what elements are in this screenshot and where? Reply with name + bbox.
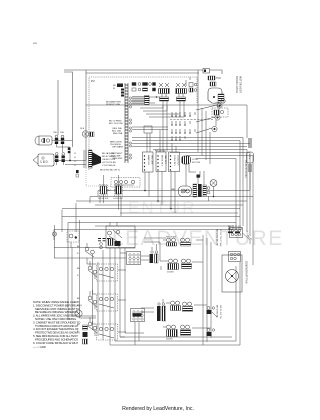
resistor block R1 bbox=[145, 96, 161, 105]
svg-text:15A: 15A bbox=[60, 131, 64, 134]
right connector capsule P5 bbox=[247, 139, 254, 190]
interlock dashed box bbox=[67, 231, 79, 242]
svg-text:GY-7G TN-8H: GY-7G TN-8H bbox=[102, 162, 116, 164]
light switch dashed box bbox=[111, 178, 140, 188]
text block TB3 bbox=[111, 153, 123, 160]
svg-text:DOWNDRAFT FAN: DOWNDRAFT FAN bbox=[245, 261, 249, 284]
svg-text:BK W RD BU OR YL: BK W RD BU OR YL bbox=[100, 170, 121, 172]
harness connector CN1 bbox=[84, 150, 101, 168]
svg-text:BK W RD BU: BK W RD BU bbox=[216, 305, 218, 318]
svg-text:LEADVENTURE: LEADVENTURE bbox=[112, 227, 284, 250]
bottom bus lines bbox=[54, 250, 240, 345]
infinite switch S3 bbox=[88, 261, 97, 279]
switch dashed box C bbox=[97, 324, 118, 340]
svg-text:W: W bbox=[113, 88, 116, 90]
svg-text:DOOR LATCH: DOOR LATCH bbox=[235, 76, 239, 93]
svg-text:VT-9J WH-0K: VT-9J WH-0K bbox=[102, 165, 116, 167]
mid bus left bends bbox=[54, 191, 98, 241]
svg-text:RED 20A: RED 20A bbox=[113, 132, 123, 135]
switch column verticals bbox=[93, 250, 104, 340]
terminal grid G1 bbox=[127, 252, 141, 265]
switch S2 aux contacts bbox=[98, 239, 110, 249]
infinite switch S5 bbox=[88, 317, 97, 336]
wire left fuse drop bbox=[57, 80, 59, 135]
right rotated labels lower bbox=[216, 305, 222, 319]
transformer T2 bbox=[176, 83, 187, 101]
registration tick top-left bbox=[33, 43, 37, 44]
connector strip P1 bbox=[125, 83, 132, 163]
stacked parts left bbox=[83, 325, 88, 344]
svg-text:RF 1200W: RF 1200W bbox=[166, 237, 176, 239]
svg-text:P2: P2 bbox=[91, 79, 95, 83]
downdraft fan box bbox=[222, 255, 242, 292]
contact grid dots bbox=[171, 115, 190, 140]
oven probe PR1 bbox=[75, 310, 82, 317]
svg-text:OR YL GY TN: OR YL GY TN bbox=[219, 305, 221, 319]
svg-text:BAKE RLY: BAKE RLY bbox=[147, 155, 150, 166]
svg-text:— ◦◦◦ GND: — ◦◦◦ GND bbox=[33, 345, 46, 349]
svg-text:L1: L1 bbox=[74, 153, 77, 155]
fuse F1 bbox=[55, 135, 58, 147]
dual element block E2 bbox=[157, 303, 166, 321]
rotary switch S1 bbox=[196, 103, 222, 133]
burner LR cluster bbox=[167, 259, 179, 274]
mid bus lines bbox=[54, 191, 253, 230]
svg-text:BK-1A W-2B: BK-1A W-2B bbox=[102, 152, 115, 155]
svg-text:BK: BK bbox=[113, 85, 116, 87]
small box on wire row bbox=[144, 126, 152, 133]
plug J1 upper bbox=[35, 136, 52, 145]
svg-text:1800W: 1800W bbox=[166, 339, 173, 341]
wire rows from strip P1 right bbox=[132, 97, 250, 147]
text block TB2 bbox=[110, 142, 124, 149]
burner LF cluster bbox=[166, 237, 177, 247]
latch motor M1 bbox=[208, 88, 225, 103]
svg-text:1 8 0: 1 8 0 bbox=[40, 160, 48, 164]
svg-text:DOOR SW: DOOR SW bbox=[98, 198, 108, 200]
door switch SW1 bbox=[98, 175, 108, 200]
wire labels cluster above bus bbox=[100, 190, 118, 192]
element bar EB1 bbox=[193, 184, 197, 197]
svg-text:CONV: CONV bbox=[192, 159, 199, 161]
thermostat box TH1 bbox=[106, 222, 135, 258]
svg-text:BK-12 W-14: BK-12 W-14 bbox=[228, 227, 241, 229]
oven lamp LP1 bbox=[210, 180, 217, 187]
right label dark blobs bbox=[228, 232, 240, 234]
notes text block bbox=[33, 300, 82, 349]
svg-text:FAN RLY: FAN RLY bbox=[164, 155, 167, 164]
svg-text:LOCK RLY: LOCK RLY bbox=[177, 155, 179, 166]
wire motor feed bbox=[197, 70, 199, 105]
svg-text:BK MAIN PWR: BK MAIN PWR bbox=[106, 101, 121, 104]
latch switch box bbox=[212, 108, 228, 117]
svg-text:W NEUT LINE: W NEUT LINE bbox=[106, 104, 121, 106]
relay box K3 bbox=[169, 152, 180, 172]
aux switch contacts SW0 bbox=[76, 170, 79, 177]
relay box K1 bbox=[143, 152, 154, 172]
right wire labels block bbox=[228, 227, 243, 232]
svg-text:2500W: 2500W bbox=[167, 272, 174, 274]
fuse F4 bbox=[62, 153, 65, 166]
element bar EB2 bbox=[198, 184, 202, 197]
wire diag stub bbox=[243, 233, 253, 244]
bus bundle right top bbox=[132, 138, 253, 266]
pilot lamp left bbox=[52, 225, 56, 258]
svg-text:CONV RLY: CONV RLY bbox=[173, 155, 175, 167]
downdraft connector P7 bbox=[229, 252, 241, 262]
wires mid verticals bbox=[147, 77, 219, 164]
svg-text:L2: L2 bbox=[74, 161, 77, 163]
switch left tick labels bbox=[77, 246, 80, 333]
svg-text:BU LOCK SW: BU LOCK SW bbox=[109, 123, 124, 125]
svg-text:YL GY TN VT WH: YL GY TN VT WH bbox=[219, 229, 221, 247]
limit switch cluster upper bbox=[207, 307, 218, 318]
circuit breaker CB1 bbox=[203, 69, 222, 75]
fuse rating labels bbox=[53, 131, 64, 134]
switch dashed box A bbox=[97, 264, 118, 281]
wire sw drops bbox=[100, 194, 121, 216]
downdraft connector P6 bbox=[230, 228, 243, 238]
svg-text:RD-3C BU-4D: RD-3C BU-4D bbox=[102, 156, 116, 158]
svg-text:P5 BK W RD BU: P5 BK W RD BU bbox=[244, 160, 247, 178]
burner cluster M2 bbox=[183, 302, 193, 312]
svg-text:BK W RD BU OR: BK W RD BU OR bbox=[216, 229, 218, 246]
infinite switch S2 bbox=[85, 243, 94, 258]
wire plug1 to bus bbox=[52, 141, 86, 165]
wire bus under motor bbox=[86, 105, 247, 138]
lock switch SW2 bbox=[113, 175, 123, 200]
svg-text:RD L2 FEED: RD L2 FEED bbox=[109, 121, 122, 123]
infinite switch S4 bbox=[88, 291, 97, 309]
burner RF cluster bbox=[181, 238, 191, 246]
svg-text:TCO: TCO bbox=[216, 77, 221, 80]
console box left edge bbox=[85, 70, 87, 160]
board input blob bbox=[117, 84, 123, 88]
lower wiring verticals bbox=[68, 235, 211, 345]
svg-text:DBL LINE: DBL LINE bbox=[151, 155, 153, 165]
board aux strip marks bbox=[121, 89, 124, 97]
fuse F2 bbox=[61, 135, 64, 147]
svg-text:RD-16 BU-18: RD-16 BU-18 bbox=[228, 229, 243, 231]
board small parts row bbox=[132, 83, 156, 92]
text block TB1 bbox=[112, 127, 123, 135]
contact grid bbox=[172, 112, 195, 139]
bus junction dots bbox=[144, 190, 214, 210]
wire L1 top feed bbox=[64, 70, 203, 147]
svg-text:MOTOR ASSY: MOTOR ASSY bbox=[239, 76, 243, 93]
label door latch vertical bbox=[235, 76, 243, 93]
plug J2 lower bbox=[33, 154, 54, 166]
relay coil block bbox=[210, 82, 216, 86]
relay box K2 bbox=[156, 152, 167, 172]
svg-text:15A: 15A bbox=[53, 131, 57, 134]
svg-text:BK: BK bbox=[77, 268, 80, 270]
fuse F3 bbox=[55, 153, 58, 166]
svg-text:GRY BAKE: GRY BAKE bbox=[112, 146, 124, 149]
relay K0 pair bbox=[189, 83, 197, 93]
burner cluster B2 bbox=[181, 325, 191, 336]
board wires fanout bbox=[132, 94, 184, 117]
limit switch cluster lower bbox=[207, 329, 215, 337]
element bar EB3 bbox=[203, 185, 210, 196]
svg-text:OR-5E YL-6F: OR-5E YL-6F bbox=[102, 159, 116, 161]
wire left drops bbox=[54, 220, 135, 258]
control board dashed outline P2 bbox=[89, 77, 197, 170]
transformer T1 bbox=[159, 83, 170, 101]
text block TB0b bbox=[109, 121, 124, 126]
mechanical dotted link bbox=[86, 168, 112, 186]
svg-text:N: N bbox=[74, 157, 76, 159]
junction blobs left bbox=[68, 148, 71, 162]
harness labels left bbox=[74, 153, 77, 167]
harness labels right bbox=[100, 152, 121, 172]
switch dashed box B bbox=[97, 294, 118, 311]
watermark bbox=[112, 198, 284, 250]
buzzer BZ1 bbox=[182, 156, 201, 164]
door lock component DL1 bbox=[80, 128, 94, 137]
svg-text:G: G bbox=[74, 165, 76, 167]
right rotated labels col bbox=[216, 229, 222, 247]
terminal grid G2 bbox=[131, 309, 145, 346]
junction blob J5 bbox=[197, 175, 200, 178]
svg-text:MOTOR: MOTOR bbox=[192, 162, 201, 164]
burner cluster M1 bbox=[171, 301, 181, 311]
relay output wires bbox=[145, 164, 214, 213]
wire L2 top parallel bbox=[86, 72, 199, 74]
svg-text:R: R bbox=[77, 275, 79, 277]
junction motor bus bbox=[217, 103, 221, 107]
svg-text:Rendered by LeadVenture, Inc.: Rendered by LeadVenture, Inc. bbox=[122, 406, 194, 412]
board component row labels bbox=[113, 85, 116, 90]
convection motor MC1 bbox=[171, 186, 192, 197]
svg-text:R: R bbox=[77, 253, 79, 255]
dual element block E1 bbox=[150, 251, 159, 263]
thermal fuse TF1 bbox=[208, 76, 221, 80]
svg-text:BROIL RLY: BROIL RLY bbox=[161, 155, 163, 167]
svg-text:DLB: DLB bbox=[80, 128, 85, 130]
burner cluster B1 bbox=[166, 325, 178, 341]
dash linkage line bbox=[170, 119, 213, 121]
burner RR cluster bbox=[182, 259, 192, 269]
text block TB0 bbox=[106, 101, 121, 107]
